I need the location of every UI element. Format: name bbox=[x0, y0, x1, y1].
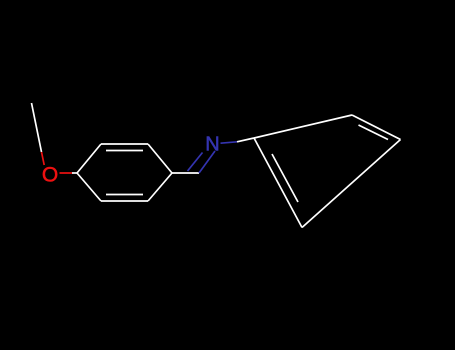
inner double bond along T-R bbox=[359, 125, 389, 140]
N to right-ring bond (nitrogen half, blue) bbox=[221, 142, 238, 143]
ring edge TL-TR (top) bbox=[101, 143, 148, 145]
svg-text:N: N bbox=[205, 134, 219, 156]
ring edge T-R (top-right) bbox=[352, 115, 401, 140]
inner double bond top bbox=[106, 150, 143, 152]
left benzene ring bbox=[77, 144, 172, 201]
ring edge TR-R bbox=[148, 144, 172, 173]
bond ring to imine C (white) bbox=[172, 172, 199, 174]
right benzene ring (distorted perspective) bbox=[254, 115, 401, 228]
C=N double bond second line (blue) bbox=[188, 153, 203, 172]
O-ring bond (carbon half, white) bbox=[72, 172, 77, 174]
ring edge BR-BL (bottom) bbox=[101, 200, 148, 202]
ring edge R-BR bbox=[148, 173, 172, 201]
ring edge L-B (bottom-left steep) bbox=[254, 138, 302, 228]
methyl CH3 bond (carbon half, white) bbox=[32, 103, 42, 152]
ring edge L-TL bbox=[77, 144, 101, 173]
N to right-ring bond (carbon half, white) bbox=[237, 138, 254, 142]
methyl-O bond (oxygen half, red) bbox=[42, 152, 45, 165]
ring edge L-T (top-left long) bbox=[254, 115, 352, 138]
inner double bond bottom bbox=[106, 194, 143, 196]
inner double bond along L-B bbox=[272, 154, 298, 202]
ring edge B-R (bottom-right long) bbox=[302, 140, 401, 228]
C=N double bond main line (blue) bbox=[199, 151, 215, 173]
ring edge BL-L bbox=[77, 173, 101, 201]
O-ring bond (oxygen half, red) bbox=[60, 172, 73, 174]
svg-text:O: O bbox=[42, 164, 58, 187]
